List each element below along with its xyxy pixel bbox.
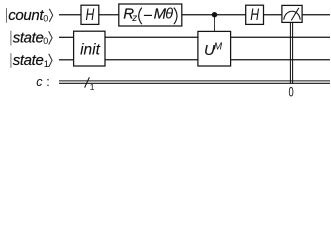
- svg-text:0: 0: [289, 83, 294, 99]
- gate H (first): [81, 5, 99, 24]
- gate U^M (controlled, spans state0,state1): [198, 31, 231, 66]
- svg-text:M: M: [214, 42, 223, 53]
- svg-text:0: 0: [43, 14, 48, 24]
- measurement box: [282, 5, 302, 22]
- control vertical line: [214, 15, 216, 32]
- label c :: [36, 75, 49, 89]
- svg-text:H: H: [250, 6, 259, 24]
- right paren: [174, 8, 177, 25]
- classical wire slash: [85, 77, 90, 87]
- svg-text:θ: θ: [165, 6, 173, 22]
- svg-text:1: 1: [90, 82, 95, 92]
- left paren: [139, 8, 142, 25]
- svg-text:0: 0: [43, 36, 48, 46]
- svg-text:H: H: [86, 6, 95, 24]
- label |state0>: [11, 29, 52, 46]
- svg-text:z: z: [131, 13, 137, 24]
- meter arc: [284, 11, 300, 19]
- svg-text::: :: [46, 75, 49, 89]
- svg-text:state: state: [13, 29, 44, 46]
- wire q1 (state0): [59, 36, 330, 38]
- measure double vertical line: [290, 22, 292, 83]
- svg-text:state: state: [13, 52, 44, 69]
- wire q0 (count): [59, 14, 330, 16]
- svg-text:1: 1: [44, 59, 49, 70]
- meter needle: [291, 8, 299, 21]
- label |count0>: [7, 7, 53, 24]
- control dot: [212, 12, 217, 17]
- label |state1>: [11, 52, 52, 70]
- wire q2 (state1): [59, 59, 330, 61]
- classical wire c (double line): [59, 81, 330, 83]
- gate Rz(-M theta): [119, 4, 182, 26]
- svg-text:count: count: [8, 7, 44, 24]
- gate init (spans state0,state1): [74, 31, 105, 66]
- minus sign: [144, 14, 152, 16]
- svg-text:init: init: [80, 42, 101, 59]
- gate H (second): [246, 5, 264, 24]
- svg-text:c: c: [36, 75, 43, 89]
